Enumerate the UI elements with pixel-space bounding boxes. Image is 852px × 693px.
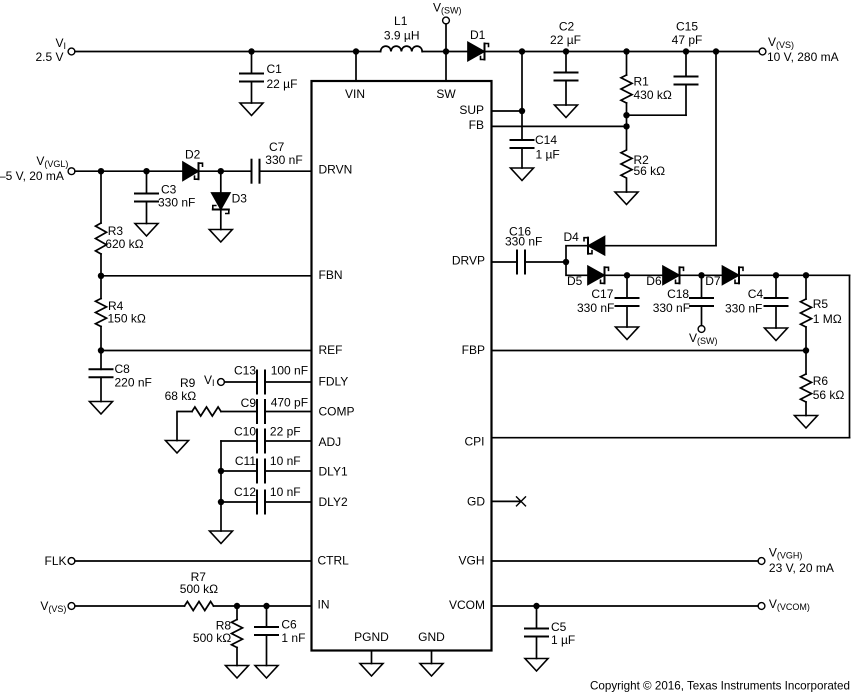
svg-text:PGND: PGND <box>354 630 389 644</box>
capacitor C8 <box>90 351 152 402</box>
node VVS input terminal bottom <box>40 599 75 614</box>
capacitor C2 <box>550 20 581 106</box>
capacitor C15 <box>627 20 703 116</box>
svg-text:C2: C2 <box>559 20 575 34</box>
wire ADJ DLY link vertical <box>218 441 224 531</box>
svg-text:VCOM: VCOM <box>449 598 485 612</box>
svg-text:1 MΩ: 1 MΩ <box>813 312 842 326</box>
diode D6 <box>646 266 683 288</box>
ground for C3 <box>135 224 158 237</box>
wire DLY1 row <box>221 470 257 472</box>
svg-text:56 kΩ: 56 kΩ <box>634 164 666 178</box>
svg-text:C12: C12 <box>234 485 256 499</box>
svg-text:C10: C10 <box>234 425 256 439</box>
svg-text:R1: R1 <box>634 75 650 89</box>
svg-text:10 V, 280 mA: 10 V, 280 mA <box>767 50 839 64</box>
svg-text:C6: C6 <box>281 618 297 632</box>
wire DRVP stub <box>492 261 518 263</box>
capacitor C6 <box>255 606 305 666</box>
resistor R3 <box>96 171 144 276</box>
node VSW top terminal <box>433 1 462 52</box>
wire VGH row <box>492 560 759 562</box>
svg-text:GND: GND <box>418 630 445 644</box>
ground for R8 <box>226 666 249 679</box>
svg-text:D1: D1 <box>470 28 486 42</box>
svg-text:C1: C1 <box>267 62 283 76</box>
wire D6 to D7 <box>681 272 723 278</box>
node VI input terminal <box>35 36 74 64</box>
wire IN row right <box>214 603 312 609</box>
svg-text:GD: GD <box>467 495 485 509</box>
wire FBN row <box>98 273 312 279</box>
capacitor C12 <box>234 485 312 514</box>
wire top rail mid <box>422 51 468 53</box>
wire CTRL row <box>75 560 312 562</box>
capacitor C16 <box>505 225 566 274</box>
svg-text:D3: D3 <box>232 192 248 206</box>
svg-text:FDLY: FDLY <box>319 375 349 389</box>
wire SUP riser <box>492 48 526 140</box>
svg-text:C3: C3 <box>161 183 177 197</box>
resistor R5 <box>801 275 842 350</box>
ground for GND <box>420 664 443 677</box>
node VCOM terminal <box>758 597 810 612</box>
capacitor C18 <box>653 275 713 325</box>
svg-text:L1: L1 <box>394 14 408 28</box>
svg-text:1 µF: 1 µF <box>551 633 575 647</box>
svg-text:620 kΩ: 620 kΩ <box>105 237 143 251</box>
node VSW mid terminal <box>689 326 718 346</box>
svg-text:D2: D2 <box>185 148 201 162</box>
svg-text:500 kΩ: 500 kΩ <box>193 631 231 645</box>
wire to D5 branch <box>566 262 588 275</box>
svg-text:10 nF: 10 nF <box>270 485 301 499</box>
wire DLY2 row <box>221 501 257 503</box>
ground for C1 <box>240 103 263 116</box>
svg-text:23 V, 20 mA: 23 V, 20 mA <box>769 561 834 575</box>
capacitor C10 <box>234 425 312 453</box>
wire D2 to C7 <box>200 168 252 174</box>
wire FB <box>492 123 630 129</box>
resistor R9 <box>165 376 257 441</box>
svg-text:D7: D7 <box>705 274 721 288</box>
svg-text:C18: C18 <box>667 287 689 301</box>
wire top rail left <box>75 51 381 53</box>
resistor R4 <box>96 276 146 351</box>
svg-text:150 kΩ: 150 kΩ <box>108 312 146 326</box>
svg-text:R3: R3 <box>108 224 124 238</box>
svg-text:C11: C11 <box>235 454 256 468</box>
ground for C4 <box>765 328 788 341</box>
diode D5 <box>567 266 609 288</box>
diode D1 <box>468 28 489 61</box>
svg-text:C7: C7 <box>269 140 285 154</box>
wire D5 to D6 <box>606 272 663 278</box>
svg-text:1 µF: 1 µF <box>536 148 560 162</box>
svg-text:47 pF: 47 pF <box>672 33 703 47</box>
svg-text:–5 V, 20 mA: –5 V, 20 mA <box>0 169 64 183</box>
node DRVP junction <box>563 259 569 265</box>
wire VCOM row <box>492 603 759 609</box>
wire top rail right <box>486 51 759 53</box>
svg-text:100 nF: 100 nF <box>271 364 308 378</box>
wire D4 to VS rail riser <box>605 48 720 245</box>
svg-text:430 kΩ: 430 kΩ <box>634 88 672 102</box>
svg-text:330 nF: 330 nF <box>265 153 302 167</box>
svg-text:FB: FB <box>469 118 484 132</box>
ground for PGND <box>360 664 383 677</box>
svg-text:10 nF: 10 nF <box>270 454 301 468</box>
wire REF row <box>98 347 312 353</box>
wire VGL row <box>75 168 183 174</box>
svg-text:DLY2: DLY2 <box>319 495 348 509</box>
svg-text:VIN: VIN <box>345 87 365 101</box>
ground for C2 <box>555 105 578 118</box>
svg-text:500 kΩ: 500 kΩ <box>180 582 218 596</box>
svg-text:C4: C4 <box>748 287 764 301</box>
svg-text:C14: C14 <box>535 133 557 147</box>
svg-text:C9: C9 <box>241 396 257 410</box>
node VI terminal at FDLY <box>204 373 257 388</box>
svg-text:FBP: FBP <box>462 343 485 357</box>
resistor R1 <box>621 48 672 126</box>
svg-text:56 kΩ: 56 kΩ <box>813 388 845 402</box>
wire GND stub <box>431 651 433 664</box>
ground for C8 <box>90 402 113 415</box>
svg-text:C5: C5 <box>551 620 567 634</box>
svg-text:VGH: VGH <box>458 554 484 568</box>
diode D2 <box>183 148 203 181</box>
diode D7 <box>705 266 743 288</box>
svg-text:C8: C8 <box>115 362 131 376</box>
inductor L1 <box>381 14 423 52</box>
svg-text:330 nF: 330 nF <box>653 301 690 315</box>
svg-text:D6: D6 <box>646 274 662 288</box>
svg-text:SW: SW <box>436 87 456 101</box>
node VGL input terminal <box>0 154 75 183</box>
capacitor C3 <box>135 171 195 223</box>
resistor R8 <box>193 606 243 666</box>
op-amp U1 TPS65150 main IC body <box>312 81 492 651</box>
svg-text:C13: C13 <box>234 364 256 378</box>
ground for C6 <box>255 666 278 679</box>
svg-text:220 nF: 220 nF <box>115 376 152 390</box>
svg-text:22 µF: 22 µF <box>267 77 298 91</box>
wire VIN drop <box>353 48 359 81</box>
svg-text:D5: D5 <box>567 274 583 288</box>
wire to D4 branch <box>566 246 587 262</box>
diode D4 <box>564 230 605 255</box>
ground for C17 <box>616 327 639 340</box>
ground for R2 <box>615 192 638 205</box>
svg-text:R6: R6 <box>813 374 829 388</box>
ground for R6 <box>795 416 818 429</box>
svg-text:330 nF: 330 nF <box>505 235 542 249</box>
svg-text:22 pF: 22 pF <box>270 425 301 439</box>
resistor R7 <box>180 570 218 611</box>
svg-text:DRVP: DRVP <box>452 254 485 268</box>
svg-text:3.9 µH: 3.9 µH <box>384 29 420 43</box>
capacitor C17 <box>577 275 639 327</box>
svg-text:2.5 V: 2.5 V <box>35 50 63 64</box>
svg-text:22 µF: 22 µF <box>550 33 581 47</box>
svg-text:Copyright © 2016, Texas Instru: Copyright © 2016, Texas Instruments Inco… <box>590 679 850 693</box>
svg-text:330 nF: 330 nF <box>158 196 195 210</box>
svg-text:470 pF: 470 pF <box>271 396 308 410</box>
wire CPI row and right border <box>492 275 850 437</box>
svg-text:C17: C17 <box>591 287 613 301</box>
svg-text:R9: R9 <box>180 376 196 390</box>
capacitor C11 <box>235 454 312 483</box>
ground for DLY caps <box>210 531 233 544</box>
svg-text:FLK: FLK <box>44 554 66 568</box>
svg-text:REF: REF <box>319 343 343 357</box>
svg-text:68 kΩ: 68 kΩ <box>165 389 197 403</box>
node VGH terminal <box>758 546 834 576</box>
wire PGND stub <box>371 651 373 664</box>
ground for D3 <box>209 230 232 243</box>
svg-text:IN: IN <box>318 598 330 612</box>
capacitor C9 <box>241 396 312 424</box>
svg-text:FBN: FBN <box>319 268 343 282</box>
capacitor C4 <box>725 275 788 328</box>
svg-text:SUP: SUP <box>459 103 484 117</box>
capacitor C13 <box>234 364 312 394</box>
svg-text:1 nF: 1 nF <box>281 631 305 645</box>
svg-text:CTRL: CTRL <box>318 554 350 568</box>
svg-text:D4: D4 <box>564 230 580 244</box>
wire IN row left <box>75 605 185 607</box>
svg-text:DLY1: DLY1 <box>319 465 348 479</box>
wire GD stub with no-connect <box>492 497 526 506</box>
capacitor C14 <box>511 133 560 168</box>
svg-text:CPI: CPI <box>464 435 484 449</box>
wire ADJ row <box>221 440 257 442</box>
ground for C14 <box>511 168 534 181</box>
capacitor C5 <box>525 606 575 659</box>
wire SW drop <box>443 48 449 81</box>
node FLK terminal <box>44 554 74 568</box>
svg-text:330 nF: 330 nF <box>725 302 762 316</box>
capacitor C7 <box>252 140 312 183</box>
ground for R9 <box>166 441 189 454</box>
wire D7 to right border <box>741 272 850 278</box>
svg-text:C15: C15 <box>676 20 698 34</box>
svg-text:330 nF: 330 nF <box>577 301 614 315</box>
wire FBP row <box>492 347 810 353</box>
svg-text:R5: R5 <box>813 297 829 311</box>
node VS output terminal <box>759 35 839 64</box>
svg-text:DRVN: DRVN <box>319 163 353 177</box>
resistor R2 <box>621 126 665 192</box>
capacitor C1 <box>240 48 297 103</box>
svg-text:COMP: COMP <box>319 405 355 419</box>
svg-text:ADJ: ADJ <box>319 435 342 449</box>
diode D3 <box>212 171 247 229</box>
ground for C5 <box>525 659 548 672</box>
resistor R6 <box>801 351 845 416</box>
